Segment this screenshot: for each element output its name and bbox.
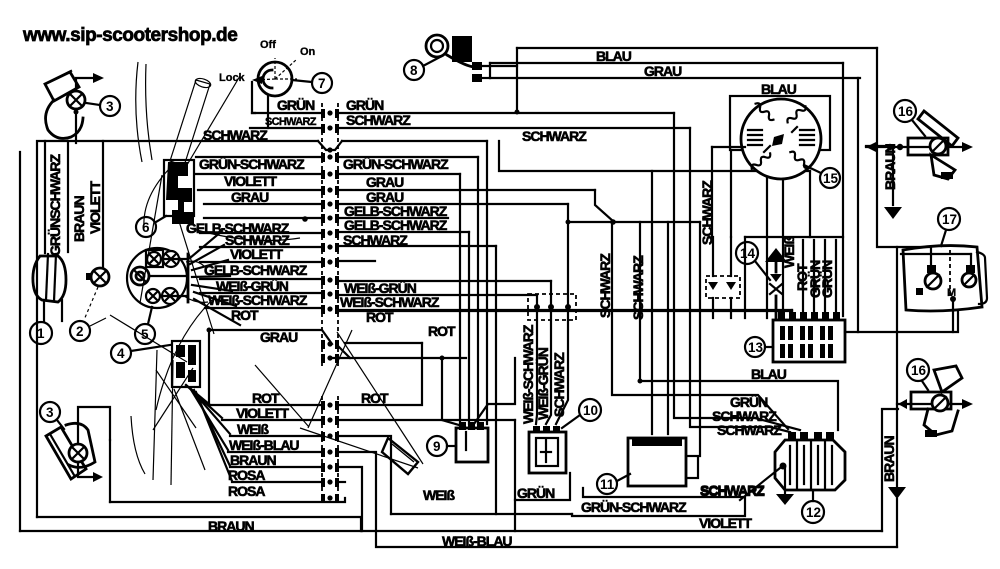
top GRAU wire y63 — [490, 62, 843, 64]
row y308 ROT — [205, 307, 320, 309]
svg-text:GRÜN: GRÜN — [346, 97, 384, 113]
connector strip pins — [321, 109, 339, 503]
top BLAU wire y48 — [517, 47, 877, 49]
svg-text:BLAU: BLAU — [596, 48, 632, 64]
row WEISS y436 — [230, 435, 320, 437]
wire bottom BRAUN line — [37, 517, 361, 531]
headlamp 5 — [127, 248, 208, 344]
connector strip 1 — [322, 103, 338, 368]
row y262 GELB-SCHWARZ left2 — [200, 261, 320, 263]
svg-text:BRAUN: BRAUN — [882, 144, 898, 190]
component 12 regulator — [775, 432, 845, 523]
circled 2's pointer line — [90, 318, 106, 326]
component 10 — [529, 399, 601, 473]
row ROSA y482 — [232, 481, 320, 483]
svg-text:16: 16 — [911, 363, 927, 378]
svg-text:GRAU: GRAU — [644, 63, 682, 79]
row ROSA2 y498 — [110, 498, 345, 502]
row y358 — [332, 357, 466, 359]
component 16 bottom — [898, 359, 973, 437]
svg-text:GRAU: GRAU — [366, 174, 404, 190]
right-side verticals — [842, 63, 844, 316]
row y279 WEISS-GRUEN — [200, 278, 320, 280]
svg-text:WEIß-BLAU: WEIß-BLAU — [229, 437, 299, 453]
svg-text:WEIß: WEIß — [423, 487, 455, 503]
BLAU wire above comp12 — [640, 381, 838, 430]
y222 line — [568, 221, 700, 223]
svg-text:10: 10 — [583, 403, 598, 418]
svg-text:GELB-SCHWARZ: GELB-SCHWARZ — [344, 217, 448, 233]
ignition switch 7 — [219, 39, 332, 96]
svg-text:GRÜN-SCHWARZ: GRÜN-SCHWARZ — [581, 499, 687, 515]
svg-text:12: 12 — [806, 505, 821, 520]
row y204 GELB-SCHWARZ right — [204, 203, 320, 205]
comp4 fan to strip2 rows — [186, 385, 232, 481]
row GRAU y190 — [198, 189, 320, 191]
svg-text:SCHWARZ: SCHWARZ — [203, 127, 268, 143]
horn 8 — [404, 35, 517, 112]
svg-text:ROT: ROT — [428, 323, 456, 339]
row y247 VIOLETT left — [200, 246, 320, 248]
svg-text:Lock: Lock — [219, 72, 246, 84]
svg-text:SCHWARZ: SCHWARZ — [597, 253, 613, 318]
row GRUEN-SCHWARZ y157 — [196, 156, 320, 158]
svg-text:WEIß: WEIß — [781, 236, 797, 268]
wires to comp 11 — [595, 190, 614, 222]
svg-text:On: On — [300, 46, 316, 58]
svg-text:WEIß-SCHWARZ: WEIß-SCHWARZ — [208, 292, 308, 308]
row y293 WEISS-SCHWARZ — [200, 292, 320, 294]
svg-text:15: 15 — [823, 171, 839, 186]
svg-text:8: 8 — [410, 63, 418, 78]
svg-text:WEIß-SCHWARZ: WEIß-SCHWARZ — [520, 324, 536, 424]
wire bottom WEISS-BLAU y547 — [378, 546, 897, 548]
svg-text:VIOLETT: VIOLETT — [236, 405, 290, 421]
sketch: steering column — [136, 62, 300, 334]
svg-text:BRAUN: BRAUN — [71, 196, 87, 242]
wires down into 13 — [712, 237, 714, 276]
svg-text:GRAU: GRAU — [260, 329, 298, 345]
connector strip 2 — [322, 396, 338, 503]
row VIOLETT/GRAU y174 — [196, 173, 320, 175]
fan from headlamp to rows — [190, 231, 240, 325]
top BLAU2 wire y78 — [490, 77, 860, 79]
row y218 — [204, 217, 320, 219]
indicator 3 bottom-left — [40, 402, 110, 482]
svg-text:GRÜN: GRÜN — [277, 97, 315, 113]
component 16 top — [866, 100, 973, 179]
brake switch 4 — [111, 341, 200, 387]
svg-text:GRÜNSCHWARZ: GRÜNSCHWARZ — [47, 154, 63, 256]
component 17 — [901, 208, 987, 332]
row VIOLETT y420 — [222, 419, 320, 421]
spark plug 14 — [736, 242, 787, 318]
svg-text:ROT: ROT — [361, 390, 389, 406]
svg-text:VIOLETT: VIOLETT — [87, 180, 103, 234]
svg-text:6: 6 — [142, 220, 150, 235]
switch block 6 — [136, 160, 194, 237]
svg-text:11: 11 — [600, 477, 615, 492]
verticals to comp10 — [536, 295, 537, 424]
row GRUEN y116 — [252, 112, 320, 114]
svg-text:VIOLETT: VIOLETT — [224, 173, 278, 189]
svg-text:GRÜN: GRÜN — [517, 485, 555, 501]
svg-text:WEIß-BLAU: WEIß-BLAU — [442, 533, 512, 549]
svg-text:GRÜN-SCHWARZ: GRÜN-SCHWARZ — [343, 156, 449, 172]
svg-text:BRAUN: BRAUN — [881, 436, 897, 482]
lamp 2 — [70, 268, 109, 341]
svg-text:14: 14 — [740, 246, 756, 261]
frame left inner / body box top — [37, 141, 318, 517]
svg-text:WEIß-SCHWARZ: WEIß-SCHWARZ — [340, 294, 440, 310]
svg-text:SCHWARZ: SCHWARZ — [522, 128, 587, 144]
headlight 1 — [30, 254, 66, 344]
svg-text:WEIß-GRÜN: WEIß-GRÜN — [535, 347, 551, 420]
svg-text:BRAUN: BRAUN — [208, 518, 254, 534]
svg-text:GRÜN-SCHWARZ: GRÜN-SCHWARZ — [199, 156, 305, 172]
row BRAUN y467 — [230, 466, 320, 468]
svg-text:ROSA: ROSA — [228, 483, 265, 499]
svg-text:3: 3 — [46, 405, 54, 420]
svg-text:WEIß: WEIß — [237, 421, 269, 437]
row y343 ROT mid — [345, 342, 422, 344]
svg-text:1: 1 — [37, 326, 45, 341]
svg-text:ROT: ROT — [252, 390, 280, 406]
frame left outer — [19, 152, 21, 531]
flywheel 15 — [730, 96, 840, 188]
svg-text:GRÜN: GRÜN — [819, 260, 835, 298]
component 9 — [427, 422, 488, 462]
svg-text:13: 13 — [748, 340, 764, 355]
svg-text:2: 2 — [76, 324, 84, 339]
right border wires — [882, 409, 898, 531]
verticals to comp 9 — [442, 358, 459, 425]
sketch: floor / kick lever — [110, 300, 423, 485]
row y233 SCHWARZ — [200, 232, 320, 234]
svg-text:9: 9 — [433, 439, 441, 454]
svg-text:3: 3 — [106, 99, 114, 114]
svg-text:SCHWARZ: SCHWARZ — [700, 483, 765, 499]
svg-text:BLAU: BLAU — [761, 81, 797, 97]
svg-text:BRAUN: BRAUN — [230, 452, 276, 468]
row WEISS-BLAU y452 — [228, 451, 320, 453]
svg-text:ROSA: ROSA — [228, 467, 265, 483]
svg-text:VIOLETT: VIOLETT — [699, 515, 753, 531]
component 13 fusebox — [745, 312, 845, 362]
svg-text:17: 17 — [942, 212, 957, 227]
svg-text:GRAU: GRAU — [231, 189, 269, 205]
row SCHWARZ y130 — [250, 127, 320, 129]
svg-text:VIOLETT: VIOLETT — [230, 246, 284, 262]
svg-text:SCHWARZ: SCHWARZ — [551, 352, 567, 417]
svg-text:Off: Off — [260, 39, 276, 51]
svg-text:SCHWARZ: SCHWARZ — [717, 422, 782, 438]
WEISS line y514 — [391, 513, 572, 515]
dashed 2pin connectors — [528, 294, 576, 320]
svg-text:16: 16 — [898, 104, 914, 119]
svg-text:SCHWARZ: SCHWARZ — [265, 116, 317, 128]
svg-text:BLAU: BLAU — [751, 366, 787, 382]
indicator 3 top-left — [45, 71, 120, 143]
svg-text:www.sip-scootershop.de: www.sip-scootershop.de — [22, 25, 238, 46]
row y330 GRAU diag — [209, 330, 332, 344]
component 11 — [597, 438, 698, 494]
svg-text:7: 7 — [318, 76, 326, 91]
svg-text:4: 4 — [117, 346, 125, 361]
wires from switch — [252, 82, 255, 113]
svg-text:ROT: ROT — [231, 307, 259, 323]
svg-text:SCHWARZ: SCHWARZ — [346, 112, 411, 128]
row ROT y405 — [209, 404, 320, 406]
wire bottom long line y531 — [20, 530, 882, 532]
